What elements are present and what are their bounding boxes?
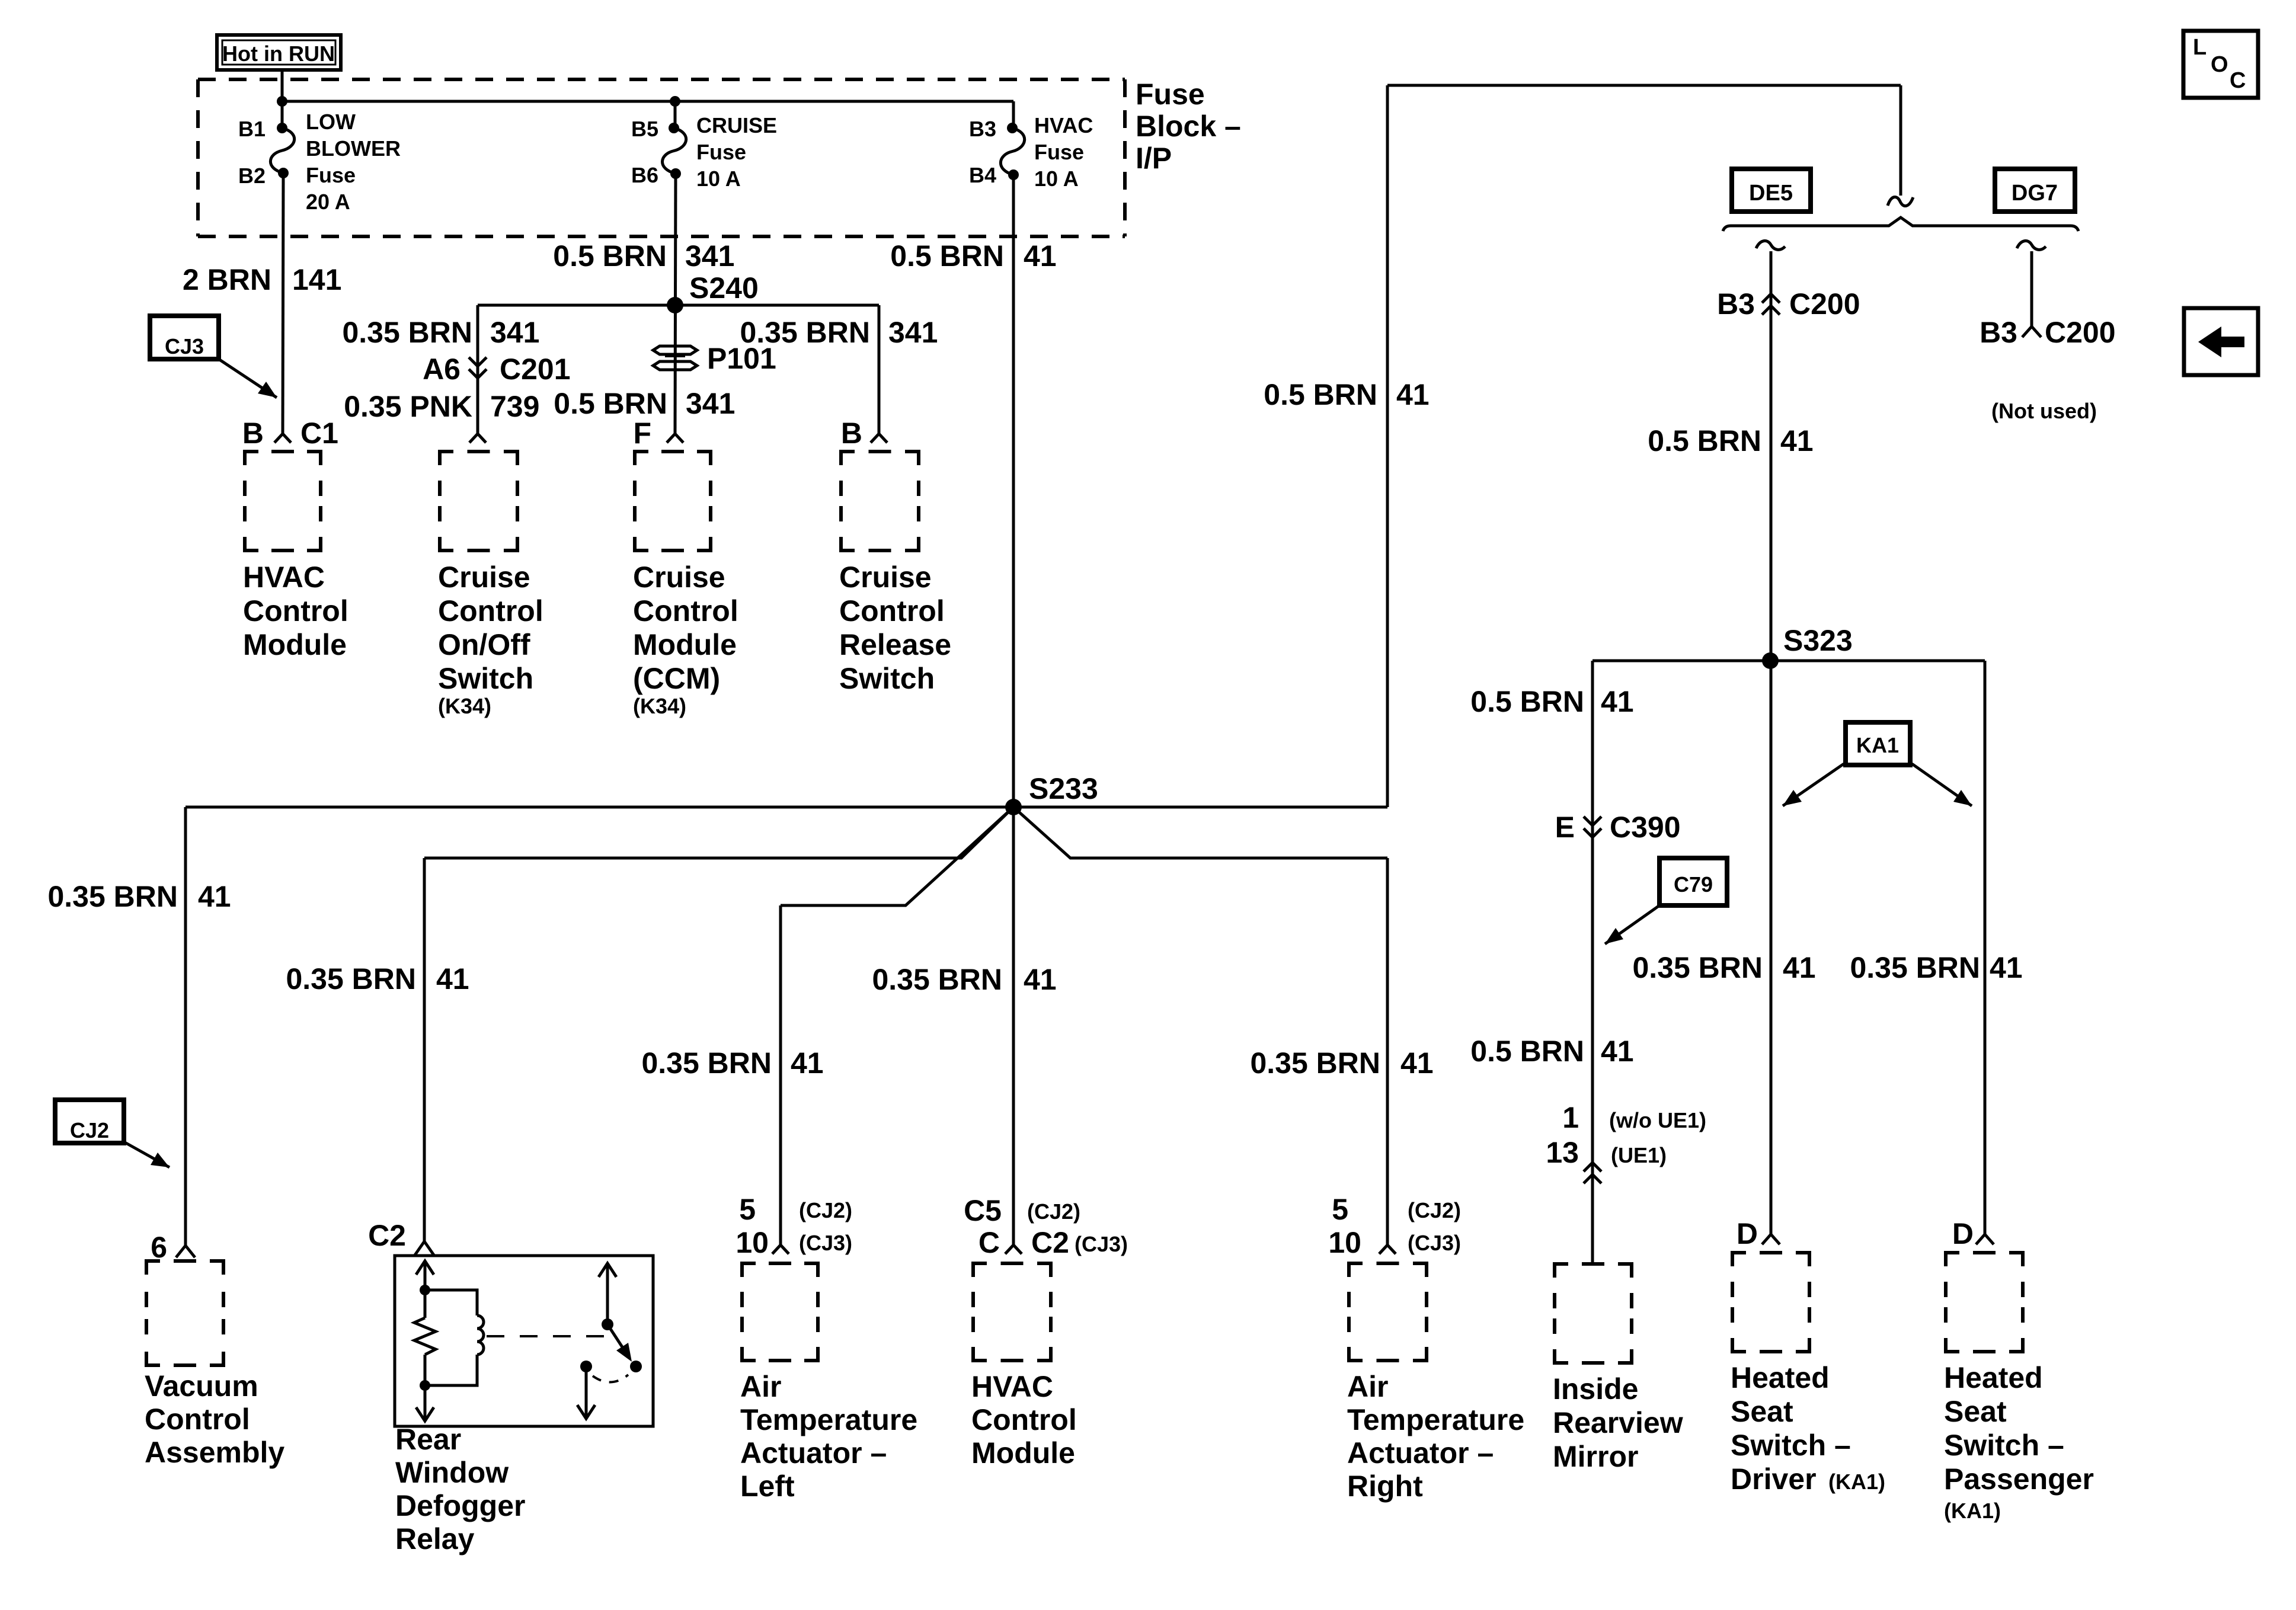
svg-text:0.35 BRN: 0.35 BRN [641,1046,772,1080]
svg-text:D: D [1952,1217,1974,1250]
svg-text:6: 6 [151,1231,167,1264]
svg-text:C2: C2 [1031,1226,1069,1259]
svg-text:Passenger: Passenger [1944,1462,2094,1496]
svg-text:Cruise: Cruise [438,561,530,594]
svg-text:Switch: Switch [438,662,533,695]
svg-text:13: 13 [1546,1136,1579,1169]
svg-text:341: 341 [685,239,734,273]
svg-text:10 A: 10 A [1034,167,1079,191]
svg-text:Fuse: Fuse [696,140,746,164]
svg-text:Assembly: Assembly [145,1436,284,1469]
svg-text:Control: Control [438,594,543,628]
svg-text:Cruise: Cruise [839,561,932,594]
svg-text:Relay: Relay [395,1522,475,1555]
svg-text:(Not used): (Not used) [1991,399,2097,423]
svg-text:(CJ3): (CJ3) [799,1231,852,1255]
svg-text:Air: Air [1347,1370,1388,1403]
svg-text:0.5 BRN: 0.5 BRN [554,387,667,420]
svg-text:Module: Module [971,1436,1075,1470]
svg-text:10 A: 10 A [696,167,741,191]
svg-text:41: 41 [1400,1046,1434,1080]
svg-text:Vacuum: Vacuum [145,1369,258,1403]
svg-text:Control: Control [145,1403,250,1436]
svg-text:B5: B5 [631,117,658,141]
svg-text:(UE1): (UE1) [1611,1143,1667,1167]
svg-text:41: 41 [1783,951,1816,984]
svg-text:Driver: Driver [1731,1462,1817,1496]
svg-text:(CJ3): (CJ3) [1408,1231,1461,1255]
svg-text:Cruise: Cruise [633,561,725,594]
svg-text:(CJ2): (CJ2) [1027,1199,1080,1224]
svg-text:Actuator –: Actuator – [740,1436,887,1470]
svg-text:Control: Control [971,1403,1077,1436]
svg-text:E: E [1555,811,1575,844]
svg-text:0.5 BRN: 0.5 BRN [1648,424,1761,457]
svg-text:Left: Left [740,1470,795,1503]
svg-text:41: 41 [791,1046,824,1080]
svg-text:B4: B4 [969,163,996,187]
svg-text:F: F [633,417,651,450]
svg-text:Fuse: Fuse [306,163,356,187]
svg-text:Fuse: Fuse [1034,140,1084,164]
svg-text:B3: B3 [1980,316,2017,349]
svg-text:0.5 BRN: 0.5 BRN [1264,378,1377,411]
svg-text:Mirror: Mirror [1553,1440,1638,1473]
svg-text:B2: B2 [238,164,266,188]
svg-text:41: 41 [1990,951,2023,984]
svg-text:Switch –: Switch – [1731,1429,1851,1462]
svg-text:341: 341 [888,316,938,349]
svg-text:41: 41 [1601,685,1634,718]
svg-text:341: 341 [490,316,539,349]
svg-text:Defogger: Defogger [395,1489,525,1522]
svg-text:I/P: I/P [1136,142,1172,175]
svg-text:S233: S233 [1029,772,1098,805]
svg-text:0.5 BRN: 0.5 BRN [890,239,1004,273]
svg-text:5: 5 [739,1193,756,1226]
svg-text:10: 10 [736,1226,769,1259]
svg-text:0.5 BRN: 0.5 BRN [553,239,667,273]
svg-text:B3: B3 [969,117,996,141]
svg-text:On/Off: On/Off [438,628,530,661]
svg-text:1: 1 [1562,1101,1579,1134]
svg-text:C200: C200 [2045,316,2116,349]
svg-text:HVAC: HVAC [1034,113,1093,137]
svg-text:Rearview: Rearview [1553,1406,1683,1439]
svg-text:(CJ2): (CJ2) [799,1198,852,1222]
svg-text:0.35 BRN: 0.35 BRN [342,316,472,349]
svg-text:Window: Window [395,1456,509,1489]
svg-text:41: 41 [198,880,231,913]
svg-text:Temperature: Temperature [740,1403,917,1436]
svg-text:Seat: Seat [1944,1395,2007,1428]
svg-text:0.35 BRN: 0.35 BRN [47,880,178,913]
svg-text:0.35 BRN: 0.35 BRN [1850,951,1980,984]
svg-text:C5: C5 [964,1194,1002,1227]
svg-text:B: B [242,417,264,450]
svg-text:41: 41 [1601,1035,1634,1068]
svg-text:0.35 PNK: 0.35 PNK [344,390,472,423]
svg-text:Switch –: Switch – [1944,1429,2064,1462]
svg-text:41: 41 [1396,378,1430,411]
svg-text:Heated: Heated [1944,1361,2043,1394]
svg-text:0.5 BRN: 0.5 BRN [1470,685,1584,718]
svg-text:C: C [2230,68,2246,93]
svg-text:(CJ2): (CJ2) [1408,1198,1461,1222]
svg-text:S240: S240 [689,271,759,305]
svg-text:CJ2: CJ2 [70,1118,109,1142]
svg-text:C79: C79 [1674,872,1713,897]
svg-text:(KA1): (KA1) [1944,1499,2001,1523]
svg-text:CJ3: CJ3 [165,334,204,359]
svg-text:KA1: KA1 [1856,733,1899,757]
svg-text:Control: Control [633,594,738,628]
svg-text:BLOWER: BLOWER [306,136,401,161]
svg-text:(KA1): (KA1) [1828,1470,1885,1494]
svg-text:C200: C200 [1789,287,1860,321]
svg-text:(K34): (K34) [438,694,491,718]
svg-text:O: O [2211,52,2228,77]
svg-text:S323: S323 [1783,624,1853,657]
svg-text:Block –: Block – [1136,110,1241,143]
svg-text:Module: Module [243,628,347,661]
svg-text:(CJ3): (CJ3) [1075,1232,1128,1256]
svg-text:2 BRN: 2 BRN [183,263,271,296]
svg-text:Control: Control [839,594,945,628]
svg-text:41: 41 [1024,239,1057,273]
svg-text:C1: C1 [300,417,338,450]
svg-text:DG7: DG7 [2012,181,2058,206]
svg-text:739: 739 [490,390,539,423]
svg-text:41: 41 [1780,424,1814,457]
svg-text:Air: Air [740,1370,781,1403]
svg-text:D: D [1737,1217,1758,1250]
svg-text:10: 10 [1328,1226,1361,1259]
svg-text:A6: A6 [423,353,461,386]
svg-text:Seat: Seat [1731,1395,1793,1428]
svg-text:CRUISE: CRUISE [696,113,777,137]
svg-text:Temperature: Temperature [1347,1403,1524,1436]
svg-text:(w/o UE1): (w/o UE1) [1609,1108,1706,1132]
svg-text:HVAC: HVAC [243,561,325,594]
svg-text:0.5 BRN: 0.5 BRN [1470,1035,1584,1068]
svg-text:L: L [2193,35,2207,60]
svg-text:C2: C2 [368,1219,406,1252]
svg-text:B6: B6 [631,163,658,187]
svg-text:DE5: DE5 [1749,181,1793,206]
svg-text:HVAC: HVAC [971,1370,1053,1403]
svg-text:Release: Release [839,628,951,661]
svg-text:0.35 BRN: 0.35 BRN [286,962,416,996]
svg-text:Inside: Inside [1553,1372,1638,1406]
svg-text:41: 41 [436,962,469,996]
svg-text:B: B [841,417,862,450]
svg-text:Rear: Rear [395,1423,461,1456]
svg-text:Right: Right [1347,1470,1423,1503]
svg-text:Switch: Switch [839,662,935,695]
svg-text:341: 341 [686,387,735,420]
svg-text:C390: C390 [1610,811,1681,844]
svg-text:Heated: Heated [1731,1361,1830,1394]
svg-text:(K34): (K34) [633,694,686,718]
svg-text:P101: P101 [707,342,776,375]
svg-text:LOW: LOW [306,110,356,134]
svg-text:Hot in RUN: Hot in RUN [222,41,335,66]
svg-text:0.35 BRN: 0.35 BRN [1632,951,1763,984]
svg-text:0.35 BRN: 0.35 BRN [872,963,1002,996]
svg-text:0.35 BRN: 0.35 BRN [1250,1046,1380,1080]
svg-text:C201: C201 [500,353,571,386]
svg-text:41: 41 [1024,963,1057,996]
svg-text:C: C [978,1226,1000,1259]
svg-text:Control: Control [243,594,348,628]
svg-text:Actuator –: Actuator – [1347,1436,1494,1470]
svg-text:B3: B3 [1717,287,1755,321]
svg-text:(CCM): (CCM) [633,662,720,695]
svg-text:141: 141 [292,263,341,296]
svg-text:20 A: 20 A [306,190,350,214]
svg-text:Fuse: Fuse [1136,78,1205,111]
svg-text:5: 5 [1332,1193,1348,1226]
svg-text:Module: Module [633,628,737,661]
svg-text:B1: B1 [238,117,266,141]
